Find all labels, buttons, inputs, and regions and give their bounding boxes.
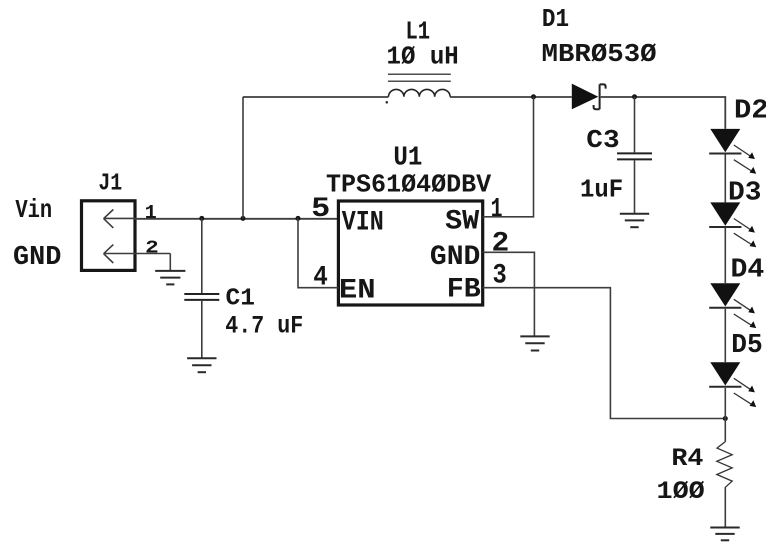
svg-text:D5: D5 <box>731 331 762 361</box>
U1 pin number 1 <box>491 195 503 226</box>
diode D1 (schottky) <box>572 84 606 110</box>
svg-text:1uF: 1uF <box>580 175 623 205</box>
svg-text:R4: R4 <box>671 444 703 473</box>
J1 pin 1 number <box>145 202 157 224</box>
U1 pin name EN <box>339 276 376 307</box>
svg-text:D4: D4 <box>731 256 765 286</box>
value 1uF <box>580 175 623 205</box>
U1 pin name FB <box>447 275 481 306</box>
capacitor C3 <box>617 153 652 159</box>
svg-text:1ØØ: 1ØØ <box>657 477 705 506</box>
inductor L1 polarity dot <box>386 101 389 104</box>
svg-text:GND: GND <box>430 242 481 273</box>
wire C1 to ground <box>201 301 203 358</box>
LED D2 <box>709 129 756 174</box>
J1 pin 1 arrow <box>104 210 135 228</box>
junction dot FB/LED <box>723 416 728 421</box>
svg-text:Vin: Vin <box>15 195 52 225</box>
svg-text:MBRØ53Ø: MBRØ53Ø <box>542 39 657 69</box>
label J1 <box>98 171 122 198</box>
wire top rail middle segment <box>450 96 572 98</box>
label R4 <box>671 444 703 473</box>
wire J1 pin2 to ground <box>169 254 171 271</box>
LED D5 <box>709 362 756 407</box>
U1 pin name SW <box>445 207 479 238</box>
wire GND pin to ground <box>483 252 535 336</box>
svg-text:EN: EN <box>339 276 376 307</box>
wire top rail right segment <box>601 97 726 129</box>
U1 pin number 4 <box>313 263 328 294</box>
ground at R4 <box>710 528 739 541</box>
LED D4 <box>709 283 756 328</box>
svg-text:TPS61Ø4ØDBV: TPS61Ø4ØDBV <box>326 170 492 200</box>
svg-text:3: 3 <box>493 261 507 292</box>
label C1 <box>226 286 255 313</box>
wire left vertical to top rail <box>242 97 244 219</box>
U1 pin number 5 <box>311 194 330 225</box>
svg-text:C1: C1 <box>226 286 255 313</box>
value MBR0530 <box>542 39 657 69</box>
svg-text:5: 5 <box>311 194 330 225</box>
svg-text:1Ø uH: 1Ø uH <box>387 42 459 72</box>
ground at U1 GND <box>520 336 549 350</box>
wire D4 to D5 <box>724 309 726 362</box>
wire C3 to ground <box>634 160 636 213</box>
svg-text:GND: GND <box>13 243 61 273</box>
label D5 <box>731 331 762 361</box>
value 100 <box>657 477 705 506</box>
svg-text:J1: J1 <box>98 171 122 198</box>
connector J1 body <box>82 201 136 271</box>
wire D3 to D4 <box>724 228 726 283</box>
wire C1 riser <box>201 218 203 293</box>
svg-text:SW: SW <box>445 207 479 238</box>
value 4.7 uF <box>225 312 303 341</box>
ground at C3 <box>620 214 649 228</box>
U1 pin number 3 <box>493 261 507 292</box>
J1 pin 2 number <box>145 238 159 259</box>
U1 pin name GND <box>430 242 481 273</box>
inductor L1 coil <box>389 89 451 96</box>
U1 pin number 2 <box>492 229 510 260</box>
wire VIN rail <box>135 218 338 220</box>
LED D3 <box>709 202 756 247</box>
junction dot top-rail tap <box>241 216 246 221</box>
label D2 <box>734 97 766 127</box>
junction dot C3 tap <box>632 94 637 99</box>
svg-text:1: 1 <box>491 195 503 226</box>
wire R4 to ground <box>724 487 726 527</box>
svg-text:D2: D2 <box>734 97 766 127</box>
junction dot EN tap <box>296 216 301 221</box>
wire D2 to D3 <box>724 155 726 203</box>
wire SW to top rail <box>483 97 534 217</box>
svg-text:2: 2 <box>492 229 510 260</box>
junction dot SW riser <box>531 94 536 99</box>
svg-text:FB: FB <box>447 275 481 306</box>
wire FB to LED chain <box>483 288 726 419</box>
J1 pin 2 arrow <box>104 245 171 263</box>
value 10 uH <box>387 42 459 72</box>
label D3 <box>728 179 762 209</box>
wire top rail left segment <box>243 96 389 98</box>
label U1 <box>393 144 422 174</box>
svg-text:D3: D3 <box>728 179 762 209</box>
label D1 <box>542 4 569 34</box>
IC U1 body <box>338 201 482 305</box>
net label Vin <box>15 195 52 225</box>
svg-text:4: 4 <box>313 263 328 294</box>
svg-text:2: 2 <box>145 238 159 259</box>
inductor L1 core bars <box>388 74 451 81</box>
wire D5 to R4 <box>724 388 726 442</box>
label L1 <box>406 17 431 47</box>
value TPS61040DBV <box>326 170 492 200</box>
ground at J1 pin 2 <box>155 271 185 285</box>
ground at C1 <box>187 358 216 372</box>
label D4 <box>731 256 765 286</box>
svg-text:C3: C3 <box>586 125 619 155</box>
label C3 <box>586 125 619 155</box>
wire C3 riser <box>634 97 636 153</box>
junction dot C1 tap <box>199 216 204 221</box>
svg-text:D1: D1 <box>542 4 569 34</box>
svg-text:1: 1 <box>145 202 157 224</box>
resistor R4 <box>717 442 732 488</box>
capacitor C1 <box>184 294 219 300</box>
svg-text:4.7 uF: 4.7 uF <box>225 312 303 341</box>
wire EN tie-down <box>298 218 338 287</box>
U1 pin name VIN <box>342 207 384 238</box>
svg-text:VIN: VIN <box>342 207 384 238</box>
net label GND <box>13 243 61 273</box>
